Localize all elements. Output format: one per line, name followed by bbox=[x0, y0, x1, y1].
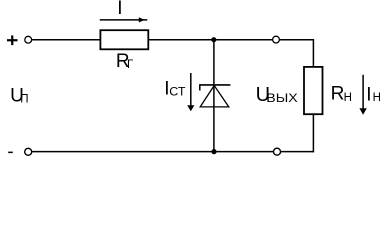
wire top-right bbox=[279, 39, 314, 41]
svg-text:ВЫХ: ВЫХ bbox=[266, 93, 298, 105]
resistor R_Н box bbox=[304, 67, 323, 114]
wire top-middle bbox=[148, 39, 272, 41]
svg-text:П: П bbox=[20, 94, 28, 106]
node junction bottom bbox=[211, 149, 216, 154]
svg-text:I: I bbox=[117, 0, 122, 19]
svg-text:I: I bbox=[366, 85, 371, 106]
zener branch wire bbox=[213, 40, 215, 152]
minus terminal label bbox=[8, 152, 13, 154]
wire right vertical upper bbox=[312, 40, 314, 67]
bottom wire right bbox=[281, 151, 315, 153]
zener diode VD cathode bar bbox=[200, 84, 231, 90]
terminal circle bottom-right bbox=[274, 148, 281, 155]
arrow I_Н bbox=[359, 75, 366, 115]
arrow I_СТ bbox=[187, 73, 194, 111]
terminal circle top-right bbox=[273, 36, 280, 43]
wire right vertical lower bbox=[312, 114, 314, 152]
wire top-left bbox=[32, 39, 101, 41]
svg-text:Н: Н bbox=[344, 92, 352, 104]
svg-text:СТ: СТ bbox=[169, 86, 185, 98]
zener diode VD triangle bbox=[200, 86, 229, 107]
terminal circle top-left bbox=[25, 36, 32, 43]
svg-text:R: R bbox=[331, 84, 345, 105]
plus terminal label bbox=[7, 35, 18, 45]
svg-text:Г: Г bbox=[127, 59, 134, 71]
terminal circle bottom-left bbox=[25, 148, 32, 155]
svg-text:Н: Н bbox=[373, 92, 381, 104]
node junction top bbox=[211, 37, 216, 42]
bottom wire left bbox=[32, 151, 274, 153]
resistor R_Г box bbox=[100, 30, 148, 49]
current arrow I bbox=[100, 17, 148, 22]
